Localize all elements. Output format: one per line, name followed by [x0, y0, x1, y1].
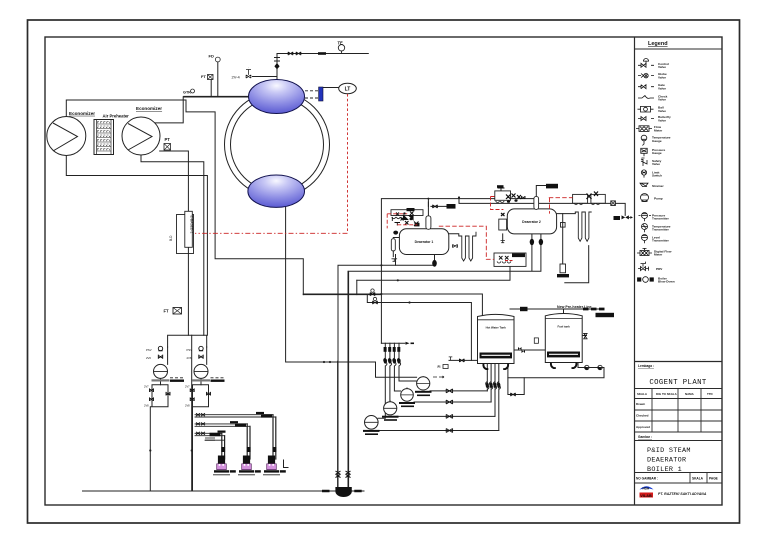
svg-text:DIG TO SKALA: DIG TO SKALA: [656, 392, 678, 396]
svg-text:Valve: Valve: [652, 162, 660, 166]
svg-text:Transmitter: Transmitter: [652, 217, 670, 221]
svg-text:Pump: Pump: [654, 197, 663, 201]
svg-text:Transmitter: Transmitter: [652, 239, 670, 243]
svg-text:PAGE: PAGE: [709, 477, 718, 481]
svg-text:P&ID STEAM: P&ID STEAM: [647, 447, 691, 455]
svg-text:Valve: Valve: [658, 75, 666, 79]
svg-text:FT: FT: [201, 74, 206, 79]
svg-text:2V7: 2V7: [144, 385, 149, 389]
svg-text:E-BASED-1: E-BASED-1: [190, 216, 194, 234]
svg-text:Economizer: Economizer: [69, 111, 95, 116]
svg-text:PT: PT: [165, 137, 171, 142]
svg-text:Transmitter: Transmitter: [652, 228, 670, 232]
svg-text:PT. RAZTEKI SAKTI ADYANA: PT. RAZTEKI SAKTI ADYANA: [658, 492, 707, 496]
svg-text:Approved: Approved: [636, 425, 650, 429]
svg-text:FD: FD: [209, 54, 214, 59]
svg-text:Valve: Valve: [658, 65, 666, 69]
svg-text:FI: FI: [438, 365, 441, 369]
svg-text:Checked: Checked: [636, 414, 649, 418]
svg-text:TTD: TTD: [707, 392, 713, 396]
svg-text:PSV: PSV: [187, 348, 193, 352]
svg-text:PRV: PRV: [656, 267, 663, 271]
svg-text:Air Preheater: Air Preheater: [103, 114, 130, 119]
svg-text:Drawn: Drawn: [636, 402, 645, 406]
svg-text:2V6: 2V6: [187, 356, 192, 360]
svg-text:NO GAMBAR :: NO GAMBAR :: [636, 477, 658, 481]
svg-text:B-D: B-D: [169, 235, 173, 241]
svg-text:GTK: GTK: [183, 91, 191, 95]
svg-text:TE: TE: [338, 41, 344, 46]
svg-text:Hot Water Tank: Hot Water Tank: [486, 326, 507, 330]
svg-text:Valve: Valve: [658, 86, 666, 90]
svg-text:Deaerator 2: Deaerator 2: [522, 220, 541, 224]
svg-text:PSV: PSV: [146, 348, 152, 352]
svg-text:Switch: Switch: [652, 174, 662, 178]
svg-text:Deaerator 1: Deaerator 1: [415, 240, 434, 244]
svg-text:SKALA: SKALA: [692, 477, 704, 481]
svg-text:Gauge: Gauge: [652, 151, 662, 155]
svg-text:Lembaga :: Lembaga :: [638, 364, 654, 368]
svg-text:SKALA: SKALA: [637, 392, 648, 396]
svg-text:DEAERATOR: DEAERATOR: [647, 457, 686, 465]
svg-text:Gambar :: Gambar :: [638, 435, 652, 439]
svg-text:Strainer: Strainer: [652, 184, 664, 188]
svg-text:Legend: Legend: [648, 41, 668, 47]
svg-text:FT: FT: [164, 309, 170, 314]
svg-text:Valve: Valve: [658, 98, 666, 102]
svg-text:VILAB: VILAB: [640, 494, 652, 498]
svg-text:Valve: Valve: [658, 109, 666, 113]
svg-text:HSA: HSA: [643, 487, 650, 491]
svg-text:LT: LT: [345, 87, 351, 93]
svg-text:Meter: Meter: [654, 253, 663, 257]
svg-text:2V8: 2V8: [185, 404, 190, 408]
svg-text:BOILER 1: BOILER 1: [647, 466, 682, 474]
svg-text:Economizer: Economizer: [136, 106, 162, 111]
svg-text:Fuel tank: Fuel tank: [558, 325, 571, 329]
svg-text:2V7: 2V7: [185, 385, 190, 389]
svg-text:2V8: 2V8: [144, 404, 149, 408]
svg-text:NAMA: NAMA: [685, 392, 695, 396]
svg-text:Gauge: Gauge: [652, 139, 662, 143]
svg-text:Valve: Valve: [658, 118, 666, 122]
svg-text:Meter: Meter: [654, 128, 663, 132]
svg-text:2V-4: 2V-4: [232, 75, 241, 80]
svg-text:Blow Down: Blow Down: [658, 280, 675, 284]
svg-text:COGENT PLANT: COGENT PLANT: [649, 379, 707, 387]
svg-text:2V6: 2V6: [146, 356, 151, 360]
